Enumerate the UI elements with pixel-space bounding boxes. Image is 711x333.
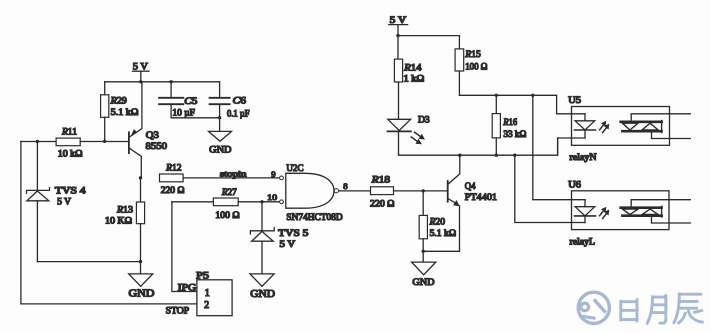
- svg-text:8: 8: [343, 181, 348, 191]
- wire gate output to R18: [339, 190, 371, 192]
- svg-text:R20: R20: [429, 218, 446, 228]
- resistor R15 100: [455, 49, 488, 95]
- ground GND under R20: [412, 262, 436, 288]
- svg-text:100 Ω: 100 Ω: [215, 210, 240, 220]
- ground GND under R13: [129, 262, 155, 300]
- svg-text:relayN: relayN: [570, 153, 597, 163]
- svg-text:U2C: U2C: [286, 164, 303, 174]
- svg-text:1 kΩ: 1 kΩ: [404, 74, 425, 84]
- svg-text:R15: R15: [464, 50, 481, 60]
- junction rail155-Q4: [458, 154, 461, 157]
- svg-text:5 V: 5 V: [57, 197, 71, 207]
- svg-text:8550: 8550: [146, 142, 168, 152]
- wire C5 bottom to C6 bottom: [171, 117, 220, 119]
- power symbol 5V (left): [133, 62, 150, 82]
- wire 5V rail left node: [105, 81, 220, 83]
- watermark char chen: [674, 294, 702, 323]
- svg-text:GND: GND: [412, 278, 434, 288]
- capacitor C6 0.1uF: [210, 82, 250, 119]
- junction Q3 collector/R12/R13: [139, 176, 142, 179]
- resistor R20 5.1k: [419, 191, 456, 262]
- svg-text:R13: R13: [116, 206, 133, 216]
- svg-text:D3: D3: [418, 116, 430, 126]
- svg-text:5 V: 5 V: [390, 15, 407, 25]
- AND gate U2C SN74HCT08D: [280, 164, 344, 222]
- svg-text:220 Ω: 220 Ω: [161, 185, 185, 195]
- svg-text:R27: R27: [221, 188, 237, 198]
- power symbol 5V (right): [389, 15, 408, 36]
- resistor R18 220: [370, 176, 447, 209]
- U5 opto LED: [575, 114, 610, 138]
- svg-text:C6: C6: [233, 97, 247, 107]
- svg-text:SN74HCT08D: SN74HCT08D: [286, 212, 343, 222]
- junction R29-base wire: [103, 140, 106, 143]
- resistor R11 10k: [21, 128, 129, 159]
- svg-text:9: 9: [271, 169, 276, 179]
- junction base wire-TVS4: [36, 140, 39, 143]
- svg-text:U5: U5: [568, 96, 581, 106]
- svg-text:10 µF: 10 µF: [172, 108, 195, 118]
- wire far-left loop to STOP: [21, 142, 197, 304]
- junction rail155-R16: [495, 154, 498, 157]
- connector P5: [196, 272, 232, 316]
- svg-text:R12: R12: [165, 164, 182, 174]
- resistor R12 220: [160, 164, 185, 196]
- U6 opto LED: [575, 200, 610, 223]
- svg-text:R16: R16: [502, 118, 517, 128]
- resistor R16 33k: [492, 95, 527, 155]
- wire U6 bottom pin from rail155: [515, 155, 585, 222]
- resistor R29 5.1k: [101, 82, 139, 142]
- junction C6 bottom: [218, 116, 221, 119]
- watermark char yue: [647, 296, 666, 324]
- ground GND under C6: [209, 118, 232, 156]
- svg-text:STOP: STOP: [166, 307, 190, 317]
- svg-text:Q3: Q3: [146, 131, 159, 141]
- svg-text:R29: R29: [110, 96, 128, 106]
- node rail y95 R15-to-relays: [459, 95, 556, 114]
- junction rail155-U6: [513, 154, 516, 157]
- junction rail95-U6: [531, 94, 534, 97]
- svg-text:PT4401: PT4401: [465, 193, 497, 203]
- svg-text:stopin: stopin: [220, 168, 247, 178]
- watermark char ri: [621, 300, 637, 321]
- transistor Q4 PT4401 NPN: [423, 155, 497, 251]
- svg-text:33 kΩ: 33 kΩ: [503, 129, 526, 139]
- ground GND under TVS5: [250, 274, 275, 300]
- svg-text:R14: R14: [403, 64, 422, 74]
- resistor R14 1k: [394, 36, 424, 120]
- relay U5 box: [568, 96, 669, 163]
- TVS 4 diode: [27, 142, 87, 262]
- junction R27-TVS5: [260, 200, 263, 203]
- LED D3: [388, 116, 431, 155]
- wire TVS4 bottom to R13 bottom node: [37, 261, 140, 263]
- svg-text:TVS 4: TVS 4: [55, 185, 86, 195]
- watermark logo circle: [578, 292, 609, 323]
- svg-text:R11: R11: [61, 128, 77, 138]
- svg-text:R18: R18: [371, 176, 391, 186]
- svg-text:2: 2: [204, 300, 209, 311]
- svg-text:5.1 kΩ: 5.1 kΩ: [111, 107, 139, 117]
- capacitor C5 10uF: [159, 82, 198, 118]
- wire net stopin: R12 to gate pin 9: [183, 177, 280, 179]
- junction R13 bottom: [139, 260, 142, 263]
- wire U6 top pin from rail95: [533, 95, 585, 199]
- svg-text:U6: U6: [568, 180, 581, 190]
- TVS 5 diode: [250, 202, 309, 274]
- resistor R27 100: [172, 188, 280, 220]
- svg-text:100 Ω: 100 Ω: [465, 61, 487, 71]
- svg-text:5.1 kΩ: 5.1 kΩ: [430, 228, 457, 238]
- svg-text:GND: GND: [129, 288, 155, 299]
- junction rail-Q3 emitter: [139, 80, 142, 83]
- svg-text:10 kΩ: 10 kΩ: [58, 149, 83, 159]
- junction 5V-R14: [396, 34, 399, 37]
- svg-text:TVS 5: TVS 5: [278, 228, 309, 238]
- svg-text:C5: C5: [184, 97, 197, 107]
- U6 triac: [621, 200, 691, 223]
- resistor R13 10K: [105, 178, 145, 262]
- svg-text:10 KΩ: 10 KΩ: [105, 216, 132, 226]
- junction Q4 base-R20: [422, 189, 425, 192]
- svg-text:5 V: 5 V: [133, 62, 148, 72]
- junction rail-C5: [169, 80, 172, 83]
- wire IPG vertical from R27 to P5 pin1: [172, 202, 197, 292]
- svg-text:IPG: IPG: [178, 284, 197, 294]
- relay U6 box: [568, 180, 669, 247]
- svg-text:0.1 µF: 0.1 µF: [227, 109, 250, 119]
- svg-text:GND: GND: [250, 289, 275, 300]
- wire U5 bottom pin to rail155: [558, 138, 585, 155]
- wire U5 top pin from rail95: [557, 113, 585, 115]
- U5 triac: [621, 114, 691, 139]
- transistor Q3 8550 PNP: [129, 82, 167, 178]
- svg-text:10: 10: [267, 192, 278, 202]
- svg-text:220 Ω: 220 Ω: [370, 199, 395, 209]
- svg-text:1: 1: [205, 288, 210, 299]
- wire 5V rail right to R15: [398, 36, 459, 49]
- junction rail95-R16: [495, 94, 498, 97]
- svg-text:relayL: relayL: [570, 237, 596, 247]
- svg-text:5 V: 5 V: [280, 239, 296, 249]
- junction R20 bottom-Q4 emitter: [422, 250, 425, 253]
- svg-text:Q4: Q4: [465, 182, 476, 192]
- svg-text:P5: P5: [196, 272, 209, 282]
- node rail y155 D3/Q4-to-relays: [399, 138, 558, 155]
- svg-text:GND: GND: [209, 145, 231, 155]
